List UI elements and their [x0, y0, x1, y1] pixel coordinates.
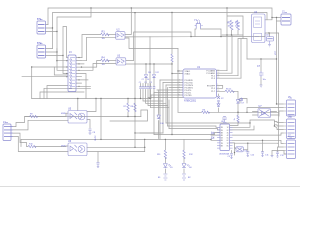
opto U6 [68, 143, 87, 156]
LED chain 1 cell [163, 174, 167, 180]
cap sym bottom x277 [276, 152, 279, 157]
wire U2 out2 y48.5 link [125, 38, 178, 49]
wire resistor R3 to opto U2 [108, 34, 116, 36]
wire MCU left fan horizontals [148, 80, 183, 98]
wire bottom-left connector feeds [13, 117, 30, 127]
resistor R13 on x172 [171, 54, 173, 62]
wire fan to U8 y134.5 [154, 133, 220, 136]
MCU pin numbers [178, 69, 219, 96]
gnd opto U6 [97, 163, 100, 168]
wire MCU right R to diode chain [217, 91, 239, 99]
pullup resistor R1 [230, 20, 233, 30]
resistor R5 mcu right [225, 90, 234, 92]
svg-text:1B: 1B [221, 127, 223, 129]
diodes at U8 input [212, 132, 214, 139]
wire battery pin stubs [46, 25, 58, 32]
capacitor C7 [259, 71, 264, 77]
wire J6 pin jogs [274, 122, 283, 130]
MCU U1 [183, 69, 217, 98]
svg-text:4B: 4B [221, 135, 223, 137]
MCU pin text right column [206, 70, 215, 94]
wire cap rail y33 [265, 33, 279, 37]
svg-text:BT1: BT1 [37, 18, 42, 21]
wire opto row 1 link [82, 35, 101, 58]
svg-text:10k: 10k [102, 64, 105, 66]
wire long y138.5 [21, 139, 220, 146]
crystal X2 vertical [217, 96, 220, 107]
wire conn C right stubs [76, 58, 101, 99]
wire below C rows [40, 86, 91, 99]
tiny text labels [3, 11, 291, 180]
wire pullup rail [227, 8, 247, 59]
svg-text:D11: D11 [148, 72, 151, 74]
wire diode cluster top right [240, 99, 247, 104]
wire right conn J5 feeds [247, 104, 283, 116]
wire diode pair legs [146, 64, 154, 87]
capacitor C6 [267, 37, 274, 42]
opto U2 [116, 32, 125, 40]
svg-text:19: 19 [218, 90, 220, 92]
svg-text:D12: D12 [156, 72, 159, 74]
wire opto U2 led2 feed [76, 37, 116, 60]
svg-text:7B: 7B [221, 143, 223, 145]
wire right verticals double [277, 21, 279, 147]
regulator U4 [252, 14, 266, 43]
svg-text:P1.7: P1.7 [211, 91, 215, 93]
wire bottom sheet border [0, 186, 300, 188]
MCU pin text left column [185, 70, 194, 97]
svg-text:10k: 10k [228, 26, 231, 28]
U8 pin text [221, 127, 230, 147]
wire top rail 3 jog [57, 8, 91, 32]
wire caps row legs [141, 90, 170, 108]
wire MCU right upper pins [217, 71, 242, 79]
connector J3 SIL [68, 55, 76, 92]
wire U3 out up to xtal rail [126, 32, 191, 61]
label caps row [139, 72, 159, 84]
svg-text:P3.7/RD: P3.7/RD [185, 95, 193, 97]
resistor R4 [101, 59, 110, 62]
wire reg U4 out [265, 18, 281, 22]
IC U8 [217, 123, 233, 151]
cap sym bottom x247 [246, 152, 249, 157]
wire long vertical x135 [134, 13, 136, 148]
svg-text:1k: 1k [234, 118, 236, 120]
svg-text:OUT2: OUT2 [95, 135, 97, 141]
bridge U7 [258, 109, 271, 118]
LED chain 1 resistor [164, 150, 166, 159]
svg-text:8B: 8B [221, 145, 223, 147]
svg-text:3B: 3B [221, 132, 223, 134]
svg-text:13: 13 [218, 72, 220, 74]
wire bt2 drops [53, 28, 58, 52]
wire xtal rail y36.6 [125, 36, 265, 38]
wire U9 area [232, 140, 287, 155]
connector J2 [281, 13, 291, 26]
svg-text:BT2: BT2 [37, 42, 42, 45]
conn J7 right3 [283, 138, 296, 159]
conn J6 right2 [283, 117, 296, 139]
wire mid rails y98.5 y116.5 [25, 99, 150, 140]
wire diode to rail [237, 103, 239, 112]
gnd C7 [260, 85, 263, 87]
svg-text:14: 14 [218, 74, 220, 76]
wire long vertical x172 with diode [172, 13, 183, 135]
wire opto U5 outputs [78, 99, 96, 129]
svg-text:11: 11 [178, 95, 180, 97]
svg-text:2B: 2B [221, 130, 223, 132]
wire fan to J6 via y123 [166, 120, 274, 126]
battery BT2 [37, 44, 46, 59]
wire U8 out right rows [230, 123, 284, 147]
wire nested corner 4 [63, 27, 68, 58]
resistor R9 [30, 115, 38, 117]
svg-text:P1.5: P1.5 [211, 88, 215, 90]
wire fan to left rails [135, 132, 163, 134]
wire chains mid [165, 158, 184, 173]
cap sym bottom x231 [230, 154, 233, 159]
svg-text:C1: C1 [139, 82, 141, 84]
gnd bottom right [271, 156, 274, 158]
LED chain 2 diode [182, 164, 190, 168]
wire fan to U8 y126 [168, 126, 221, 127]
crystal Y1 top [195, 20, 203, 29]
svg-text:10k: 10k [235, 26, 238, 28]
svg-text:C2: C2 [142, 79, 144, 81]
mid blob near y120 [222, 116, 227, 122]
svg-text:VCC: VCC [275, 50, 277, 55]
wire LED chain feeds [145, 139, 184, 151]
cap sym bottom x264 [261, 152, 264, 157]
diode D7 below R5 [236, 100, 240, 104]
conn J5 right1 [283, 98, 296, 116]
resistor R8 mid vertical [134, 103, 136, 112]
wire rail y112.8 [178, 111, 279, 113]
opto U9 [236, 147, 243, 152]
svg-text:15: 15 [218, 77, 220, 79]
resistor R3 [101, 33, 110, 36]
cap C8 u5 emitter [89, 129, 92, 135]
svg-text:XTAL2: XTAL2 [185, 72, 191, 75]
svg-text:6B: 6B [221, 140, 223, 142]
svg-text:C5: C5 [150, 82, 152, 84]
svg-text:C4: C4 [147, 79, 149, 81]
connector J4 bottom left [3, 123, 13, 141]
wire opto U2 out up [125, 8, 131, 35]
LED chain 2 cell [182, 174, 186, 180]
wire crystal X2 stubs [218, 94, 220, 112]
wire opto U3 led2 feed [76, 64, 116, 71]
wire resistor R4 to opto U3 [108, 60, 117, 62]
diode pair D11 D12 [144, 75, 155, 78]
LED chain 1 diode [163, 164, 171, 168]
wire opto U6 outputs [87, 147, 145, 162]
gnd below C6 [268, 41, 271, 47]
svg-text:12: 12 [218, 69, 220, 71]
wire y59 rail [247, 59, 277, 71]
resistor R7 mid vertical [127, 103, 129, 112]
wire cap C7 gnd [260, 77, 262, 85]
wire pullup bottoms [222, 30, 243, 35]
svg-text:R5 1k: R5 1k [226, 89, 231, 91]
wire top rail 2 [53, 13, 268, 29]
svg-text:AT89C2051: AT89C2051 [184, 100, 197, 103]
wire crystal loop [195, 29, 221, 37]
wire diode mid vertical [140, 95, 159, 133]
svg-text:17: 17 [218, 87, 220, 89]
wire top rail 1 [48, 8, 272, 25]
wire MCU right crystal pins [217, 86, 223, 89]
svg-text:C3: C3 [144, 82, 146, 84]
opto U3 [116, 58, 126, 65]
wire U3 out2 long y64 [126, 37, 183, 113]
svg-text:P1.3: P1.3 [211, 78, 215, 80]
wire step left mid [110, 110, 148, 121]
wire fan to U8 y128.5 [169, 129, 220, 130]
resistor R6 on rail [202, 111, 210, 113]
wire MCU left fan verticals [148, 80, 169, 139]
LED chain 2 resistor [183, 150, 185, 159]
wire x238 below rail [230, 112, 238, 125]
resistor R10 [28, 145, 36, 147]
svg-text:10u: 10u [263, 79, 266, 81]
diode pair D8 D9 [239, 98, 243, 101]
battery BT1 [37, 20, 46, 35]
resistor R14 below rail [237, 115, 239, 122]
diode D10 mid vertical [157, 115, 161, 119]
pullup resistor R2 [237, 20, 240, 30]
wire bridge stubs [253, 112, 279, 116]
wire conn C left feeds [32, 67, 68, 99]
svg-text:RST/VPP: RST/VPP [207, 85, 216, 87]
caps row C1-C5 [139, 87, 155, 88]
opto U5 [68, 111, 87, 124]
svg-text:5B: 5B [221, 138, 223, 140]
svg-text:10k: 10k [102, 38, 105, 40]
